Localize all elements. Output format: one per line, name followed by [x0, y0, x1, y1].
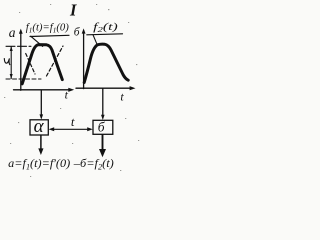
svg-text:a: a: [9, 25, 16, 40]
svg-text:I: I: [69, 1, 77, 20]
svg-text:α: α: [34, 116, 45, 137]
svg-text:f1(t)=f1(0): f1(t)=f1(0): [26, 22, 69, 35]
svg-text:a=f1(t)=f′(0): a=f1(t)=f′(0): [8, 156, 70, 171]
svg-text:б: б: [98, 120, 106, 135]
svg-text:–б=f2(t): –б=f2(t): [73, 156, 114, 171]
svg-text:f2(t): f2(t): [93, 21, 118, 34]
svg-text:t: t: [71, 114, 75, 129]
